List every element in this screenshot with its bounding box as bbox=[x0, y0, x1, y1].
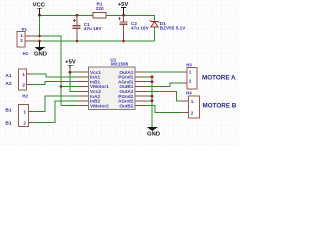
label MOTORE A bbox=[202, 75, 236, 82]
svg-text:BZV55 5.1V: BZV55 5.1V bbox=[160, 25, 186, 30]
pin lead H4 pin2 bbox=[183, 111, 189, 113]
svg-text:GND: GND bbox=[34, 52, 47, 58]
pin lead PGnd1 bbox=[135, 76, 146, 78]
capacitor C2 bbox=[118, 17, 150, 30]
svg-text:A2: A2 bbox=[5, 81, 11, 87]
svg-text:47u 16V: 47u 16V bbox=[131, 25, 150, 30]
svg-text:B1: B1 bbox=[5, 120, 11, 126]
wire C1 bottom to GND rail bbox=[76, 28, 78, 41]
junction PGnd1 bbox=[151, 76, 154, 79]
svg-text:H1: H1 bbox=[23, 51, 29, 56]
svg-text:VMotor2: VMotor2 bbox=[90, 103, 109, 108]
pin lead P1 pin1 bbox=[25, 35, 35, 37]
pin name Vcc2 bbox=[90, 89, 101, 94]
pin lead VMotor2 bbox=[78, 105, 88, 107]
connector A inputs (H?) bbox=[19, 69, 29, 99]
pin lead B conn pin2 bbox=[29, 122, 35, 124]
svg-text:VCC: VCC bbox=[33, 3, 46, 9]
junction C1 bottom bbox=[76, 40, 79, 43]
wire +5V stem to Vcc1 bbox=[70, 68, 78, 73]
pin name InA2 bbox=[90, 94, 101, 99]
junction +5V Vcc1 bbox=[69, 71, 72, 74]
connector H4 (motor B) bbox=[186, 90, 199, 118]
pin lead OutB2 bbox=[135, 105, 146, 107]
wire PGnd2 stub bbox=[146, 95, 152, 97]
svg-text:B1: B1 bbox=[5, 107, 11, 113]
junction P1 pin2 bbox=[38, 40, 41, 43]
svg-text:+5V: +5V bbox=[65, 60, 76, 66]
net label B1 bbox=[5, 107, 11, 113]
zener diode D1 bbox=[150, 20, 186, 30]
pin lead P1 pin2 bbox=[25, 40, 35, 42]
junction PGnd2 bbox=[151, 95, 154, 98]
svg-text:MOTORE B: MOTORE B bbox=[203, 103, 237, 110]
wire OutB2 to H4 pin2 bbox=[146, 106, 183, 113]
power VCC symbol bbox=[33, 3, 46, 16]
pin lead A conn pin1 bbox=[27, 73, 32, 75]
wire AGnd1 stub bbox=[146, 81, 152, 83]
wire A1 to InA1 bbox=[32, 74, 78, 77]
wire GND rail bbox=[40, 40, 155, 42]
wire +5V node to D1 top bbox=[124, 15, 155, 20]
svg-text:GND: GND bbox=[147, 131, 160, 137]
pin lead InA2 bbox=[78, 95, 88, 97]
wire OutA1 to H3 pin1 bbox=[146, 71, 183, 73]
connector H3 (motor A) bbox=[186, 63, 197, 89]
junction +5V node bbox=[122, 14, 125, 17]
pin lead VMotor1 bbox=[78, 86, 88, 88]
power +5V symbol (top) bbox=[118, 2, 129, 15]
pin lead AGnd2 bbox=[135, 100, 146, 102]
svg-text:2: 2 bbox=[191, 110, 194, 115]
connector P1 bbox=[17, 27, 27, 47]
pin lead OutB1 bbox=[135, 86, 146, 88]
pin name AGnd1 bbox=[118, 79, 134, 84]
resistor R1 bbox=[93, 2, 106, 18]
wire B2 to InB2 bbox=[35, 101, 78, 123]
svg-text:MX1508: MX1508 bbox=[111, 62, 129, 67]
pin lead PGnd2 bbox=[135, 95, 146, 97]
pin lead A conn pin2 bbox=[27, 84, 32, 86]
capacitor C1 bbox=[72, 19, 102, 31]
pin lead InB2 bbox=[78, 100, 88, 102]
pin lead OutA1 bbox=[135, 71, 146, 73]
pin name VMotor1 bbox=[90, 84, 109, 89]
wire VCC down to P1 pin1 bbox=[39, 15, 41, 36]
svg-text:1: 1 bbox=[189, 70, 192, 75]
svg-text:2: 2 bbox=[20, 38, 23, 43]
wire VMotor1 tap bbox=[61, 86, 84, 88]
pin name OutA2 bbox=[119, 89, 133, 94]
junction P1 pin1 bbox=[38, 35, 41, 38]
connector B inputs bbox=[19, 105, 29, 127]
pin name PGnd2 bbox=[118, 94, 133, 99]
pin lead Vcc1 bbox=[78, 71, 88, 73]
pin name OutB1 bbox=[119, 84, 133, 89]
wire C1 top lead bbox=[76, 15, 78, 25]
wire VCC branch right then down (VMotor feed) bbox=[40, 36, 62, 106]
svg-text:1: 1 bbox=[22, 72, 25, 77]
wire PGnd1 stub bbox=[146, 76, 152, 78]
ground symbol H1 (under P1) bbox=[23, 41, 47, 58]
junction VMotor1 tap bbox=[60, 85, 63, 88]
wire P1 pin leads net bbox=[35, 36, 40, 41]
pin name OutA1 bbox=[119, 70, 133, 75]
net label A2 bbox=[5, 81, 11, 87]
svg-text:P1: P1 bbox=[22, 27, 28, 32]
ground symbol (IC right) bbox=[147, 126, 160, 137]
pin lead InB1 bbox=[78, 81, 88, 83]
pin name VMotor2 bbox=[90, 103, 109, 108]
pin lead B conn pin1 bbox=[29, 111, 35, 113]
power +5V symbol (U1) bbox=[65, 60, 76, 69]
svg-text:2: 2 bbox=[23, 120, 26, 125]
pin name PGnd1 bbox=[118, 75, 133, 80]
pin lead H3 pin1 bbox=[183, 71, 188, 73]
wire +5V down to Vcc2 bbox=[70, 72, 78, 91]
pin lead H3 pin2 bbox=[183, 82, 188, 84]
label MOTORE B bbox=[203, 103, 237, 110]
svg-text:2: 2 bbox=[22, 82, 25, 87]
net label A1 bbox=[5, 73, 11, 79]
pin name InB1 bbox=[90, 79, 101, 84]
wire VCC rail top bbox=[40, 14, 94, 16]
pin lead AGnd1 bbox=[135, 81, 146, 83]
pin lead OutA2 bbox=[135, 90, 146, 92]
wire C2 bottom lead bbox=[123, 25, 125, 41]
svg-text:220: 220 bbox=[96, 6, 104, 11]
junction AGnd1 bbox=[151, 80, 154, 83]
wire VMotor2 bbox=[61, 105, 84, 107]
pin name OutB2 bbox=[119, 103, 133, 108]
svg-text:MOTORE A: MOTORE A bbox=[202, 75, 236, 82]
wire B1 to InA2 bbox=[35, 96, 78, 112]
wire A2 to InB1 bbox=[32, 82, 78, 85]
junction C2 bottom bbox=[122, 40, 125, 43]
pin name InA1 bbox=[90, 75, 101, 80]
pin name AGnd2 bbox=[118, 99, 134, 104]
svg-text:47u 16V: 47u 16V bbox=[84, 26, 103, 31]
pin lead InA1 bbox=[78, 76, 88, 78]
svg-text:2: 2 bbox=[189, 79, 192, 84]
wire OutA2 to H4 pin1 bbox=[146, 91, 183, 101]
pin name Vcc1 bbox=[90, 70, 101, 75]
svg-text:+5V: +5V bbox=[118, 2, 129, 8]
net label B1 (second) bbox=[5, 120, 11, 126]
junction AGnd2 bbox=[151, 100, 154, 103]
pin lead H4 pin1 bbox=[183, 100, 189, 102]
svg-text:A1: A1 bbox=[5, 73, 11, 79]
pin name InB2 bbox=[90, 99, 101, 104]
junction VCC node bbox=[38, 14, 41, 17]
svg-text:H2: H2 bbox=[22, 94, 28, 99]
pin lead Vcc2 bbox=[78, 90, 88, 92]
junction C1 top bbox=[76, 14, 79, 17]
wire GND vertical at IC right bbox=[151, 77, 153, 126]
wire OutB1 to H3 pin2 bbox=[146, 83, 183, 87]
svg-text:OutB2: OutB2 bbox=[119, 103, 133, 108]
wire C2 top lead bbox=[123, 15, 125, 22]
svg-text:H4: H4 bbox=[186, 90, 192, 95]
wire D1 bottom lead to GND rail bbox=[154, 28, 156, 42]
op-amp U1 MX1508 IC body bbox=[88, 58, 135, 110]
wire R1 to +5V node bbox=[106, 14, 124, 16]
wire AGnd2 stub bbox=[146, 100, 152, 102]
svg-text:1: 1 bbox=[23, 109, 26, 114]
svg-text:1: 1 bbox=[191, 99, 194, 104]
